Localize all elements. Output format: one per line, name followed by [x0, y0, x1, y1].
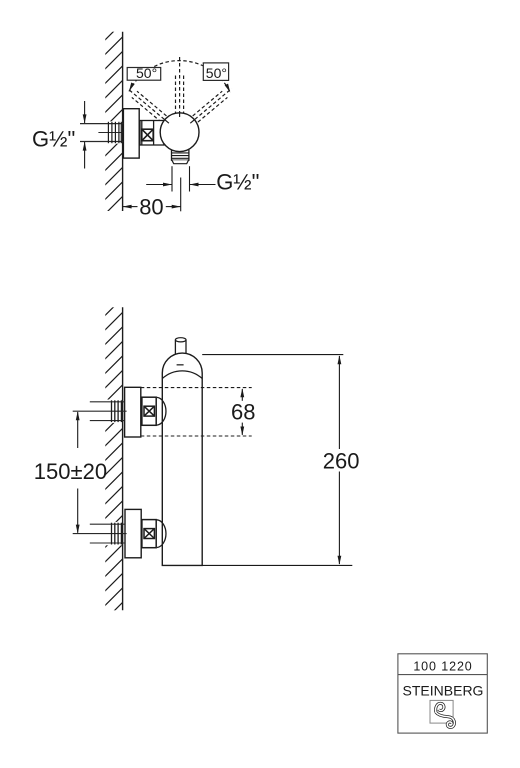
handle knob circle (top view) [160, 113, 199, 152]
top connection wall plate [125, 387, 141, 437]
lever rotated -50deg axis dashed [128, 89, 169, 124]
bottom connection pipe lines [90, 523, 125, 525]
logo square [430, 700, 453, 723]
pipe thread lines (top view) [108, 122, 121, 143]
top connection X-box [142, 397, 156, 425]
svg-text:G½": G½" [216, 169, 259, 194]
bottom connection X-box [142, 520, 156, 548]
lever neutral left edge dashed [175, 76, 177, 114]
svg-text:80: 80 [139, 194, 163, 219]
top connection centerline (ext line of 150 dim) [73, 410, 127, 412]
svg-text:G½": G½" [32, 126, 75, 151]
dimension G1/2 bottom: stems + arrows [146, 184, 171, 186]
dimension 260: line + arrows [338, 356, 340, 449]
inlet pipe top line (top view) [80, 123, 123, 125]
outlet end cap [172, 160, 189, 164]
pipe hole in wall bottom connection (front view) [104, 522, 122, 545]
svg-text:50°: 50° [206, 65, 227, 81]
bottom connection centerline (ext line of 150 dim) [73, 533, 127, 535]
dimension 150+-20: line + arrows [77, 412, 79, 448]
label box 50deg left [127, 65, 161, 81]
valve divider line [153, 121, 155, 146]
arc arrowhead right [225, 84, 231, 93]
arc arrowhead left [129, 82, 135, 91]
outlet centerline [180, 178, 182, 212]
wall plate (top view) [123, 109, 139, 158]
title box frame [398, 654, 487, 733]
svg-text:260: 260 [323, 448, 360, 473]
logo squiggle e [436, 703, 455, 727]
dash of -50 axis inside knob [165, 120, 169, 124]
svg-text:50°: 50° [136, 65, 157, 81]
lever neutral right edge dashed [183, 76, 185, 114]
svg-text:68: 68 [231, 399, 255, 424]
top connection pipe lines [90, 401, 125, 403]
dimension 68: stems + arrows [241, 389, 243, 401]
wall hatch (top view) [105, 32, 122, 211]
bottom connection fitting bulge arc [157, 520, 166, 548]
lever neutral axis dashed [179, 57, 181, 119]
lever rotated +50deg edge b dashed [198, 97, 228, 122]
body bottom extension line [202, 564, 352, 566]
X square (top view) [142, 129, 153, 141]
inlet pipe bottom line (top view) [80, 141, 123, 143]
lever rotated -50deg edge b dashed [132, 97, 162, 122]
valve body block (top view) [140, 121, 164, 146]
svg-text:150±20: 150±20 [34, 459, 107, 484]
dimension 80: line + arrows [123, 206, 138, 208]
label box 50deg right [203, 63, 228, 81]
dash of neutral axis inside knob [179, 114, 181, 120]
pipe centerline (top view) [98, 132, 122, 134]
top connection fitting bulge arc [157, 397, 166, 425]
260 top extension line [202, 354, 343, 356]
lever rotated +50deg edge a dashed [193, 91, 223, 116]
dashed extension line 68 top [141, 387, 252, 389]
title box divider [398, 674, 487, 676]
faucet body (front view) [162, 353, 202, 565]
dash of +50 axis inside knob [190, 120, 194, 124]
top connection thread lines [112, 400, 122, 422]
wall hatch (front view) [105, 307, 122, 610]
bottom connection wall plate [125, 509, 141, 557]
svg-text:STEINBERG: STEINBERG [403, 683, 484, 699]
bottom connection thread lines [112, 523, 122, 545]
rotation arc 100deg dashed [129, 61, 230, 93]
svg-text:100 1220: 100 1220 [413, 659, 472, 673]
marking dash on cap [177, 364, 184, 366]
cartridge stem (front view) [175, 338, 186, 359]
pipe hole in wall (top view) [104, 121, 122, 143]
valve inner left line [141, 121, 143, 146]
cap seam arc [162, 371, 202, 379]
lever rotated +50deg axis dashed [190, 89, 231, 124]
outlet G1/2 extension line right [189, 166, 191, 191]
lever rotated -50deg edge a dashed [137, 91, 167, 116]
pipe hole in wall top connection (front view) [104, 400, 122, 423]
outlet thread lines [172, 153, 189, 158]
outlet spout below handle (top view) [172, 150, 189, 161]
dashed extension line 68 bottom [141, 435, 252, 437]
wall face line (top view) [122, 32, 124, 211]
wall face line (front view) [122, 307, 124, 610]
outlet G1/2 extension line left [171, 166, 173, 191]
dimension G1/2 left: line + arrows [84, 101, 86, 169]
